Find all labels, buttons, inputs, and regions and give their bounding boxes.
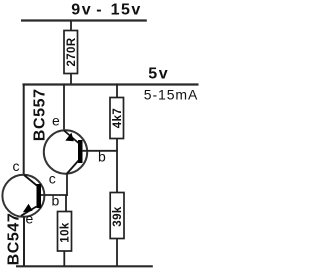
transistor Q2 BC547 [2, 158, 68, 266]
svg-text:c: c [49, 171, 56, 187]
resistor 10k [58, 212, 72, 252]
transistor Q1 BC557 [44, 84, 118, 196]
svg-text:10k: 10k [60, 222, 72, 243]
wire 5v output rail [23, 83, 199, 85]
svg-text:e: e [52, 113, 60, 129]
svg-text:270R: 270R [66, 37, 78, 66]
Q2 body circle [2, 175, 44, 217]
Q1 base bar [78, 140, 83, 163]
Q2 collector lead [24, 175, 37, 186]
svg-text:BC557: BC557 [32, 88, 49, 141]
wire emitter from 5v rail [63, 84, 65, 131]
wire top supply rail [21, 19, 147, 21]
wire from R3 to bottom rail [116, 239, 118, 267]
resistor 270R [64, 31, 78, 74]
wire from top rail to R1 [70, 21, 72, 32]
Q2 base bar [37, 184, 42, 208]
svg-text:b: b [98, 149, 106, 165]
Q2 emitter arrow (NPN) [23, 204, 33, 213]
wire R4 to bottom rail [63, 251, 65, 266]
resistor 39k [110, 193, 124, 239]
wire Q2 emitter to bottom rail [23, 216, 25, 266]
Q1 body circle [44, 130, 87, 173]
resistor 4k7 [110, 98, 124, 139]
Q1 collector lead [67, 161, 79, 174]
Q2 emitter lead [21, 207, 37, 216]
Q1 emitter lead [64, 131, 79, 144]
svg-text:15v: 15v [111, 2, 142, 19]
wire Q2 base node down to R4 [65, 195, 67, 212]
svg-text:-: - [96, 2, 101, 19]
wire from R2 down through base node to R3 [116, 139, 118, 194]
svg-text:9v: 9v [71, 2, 92, 19]
svg-text:BC547: BC547 [6, 213, 23, 266]
svg-text:5-15mA: 5-15mA [144, 87, 198, 103]
wire left rail down to Q2 collector [23, 84, 25, 176]
wire from 5v rail down to R2 [116, 84, 118, 99]
svg-text:b: b [52, 193, 60, 209]
wire from R1 to 5v rail [70, 74, 72, 85]
wire Q1 collector to Q2 base node [66, 174, 68, 196]
svg-text:c: c [13, 158, 20, 174]
svg-text:e: e [26, 211, 34, 227]
svg-text:39k: 39k [112, 206, 124, 227]
wire Q2 base to Q1 collector [41, 194, 68, 196]
svg-text:4k7: 4k7 [112, 108, 124, 128]
wire bottom 0v rail [16, 265, 153, 267]
Q1 emitter arrow (PNP) [65, 133, 74, 142]
wire Q1 base to R2/R3 node [82, 150, 118, 152]
svg-text:5v: 5v [148, 66, 169, 83]
